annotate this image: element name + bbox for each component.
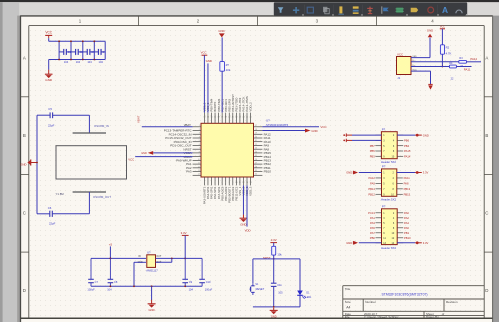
toolbar icon: part (green) (395, 8, 404, 13)
switch S1 (249, 283, 254, 295)
capacitor C10 (199, 258, 211, 286)
usb pin names (412, 56, 417, 72)
svg-text:PA8: PA8 (404, 182, 409, 186)
comment STM32F103C8T6 (266, 123, 289, 127)
svg-text:Number: Number (365, 300, 376, 304)
value 104 (C1) (64, 60, 69, 64)
designator U? (266, 118, 270, 122)
comment Header 5X2 (381, 198, 396, 202)
svg-text:18: 18 (255, 129, 257, 131)
svg-text:VCC: VCC (397, 52, 403, 56)
svg-text:GND: GND (148, 308, 154, 312)
designator P? (Header 8X2) (382, 204, 386, 208)
value 100uF (C7) (87, 288, 95, 292)
ground (below mcu) (240, 215, 248, 227)
svg-text:104: 104 (87, 60, 92, 64)
wire P1 left row2 (343, 139, 381, 142)
svg-text:Header 5X2: Header 5X2 (381, 160, 396, 164)
svg-text:28: 28 (255, 166, 257, 168)
wire cap bank vertical drops (59, 41, 105, 59)
wire to ground (regulator) (151, 286, 153, 300)
wire mcu bottom col12 to gnd (242, 185, 244, 214)
mcu bottom pin labels (rotated) (203, 186, 253, 204)
toolbar icon: text A (442, 5, 448, 15)
capacitor C5 (48, 107, 52, 118)
svg-text:PB15: PB15 (404, 192, 411, 196)
svg-text:5: 5 (199, 140, 200, 142)
mcu pin numbers top row (203, 117, 251, 119)
toolbar icon: wire tool (338, 6, 344, 14)
svg-text:2: 2 (199, 129, 200, 131)
mcu pins right (254, 127, 263, 176)
wire VBAT to mcu (142, 126, 193, 128)
svg-text:45: 45 (246, 117, 248, 119)
wire usb D+ row (411, 66, 449, 68)
wire VSSA to ground arrow (153, 152, 192, 154)
svg-text:OSC8M_OUT: OSC8M_OUT (93, 195, 111, 199)
svg-text:PB6: PB6 (404, 139, 410, 143)
zone letters A-D (23, 56, 489, 294)
wire mcu top col1 (203, 55, 205, 112)
ground arrow (VSSA) (141, 151, 153, 155)
ground (regulator) (148, 300, 156, 312)
wire 3.3V to R5 (273, 243, 275, 247)
svg-text:23: 23 (255, 148, 257, 150)
svg-text:GND: GND (427, 29, 433, 33)
ground arrow (usb bottom) (428, 84, 433, 89)
wire+ground P3 left row7 (346, 241, 381, 245)
svg-text:C9: C9 (189, 280, 193, 284)
designator S1 (255, 283, 259, 286)
wire R5 to rail (273, 255, 275, 260)
mcu pin numbers left column (198, 125, 200, 176)
designator R2 (446, 45, 450, 49)
wire C5 to crystal top (53, 115, 90, 132)
connector P2 (Header 5X2) body (382, 169, 397, 196)
wire VCC stem (48, 38, 50, 41)
svg-text:C:\Users\..\Sheet1.SchDoc: C:\Users\..\Sheet1.SchDoc (364, 315, 399, 319)
svg-text:3: 3 (211, 182, 212, 184)
wire mcu top col2 (207, 63, 209, 112)
svg-text:PA3: PA3 (370, 221, 375, 225)
wire +5 stem (109, 246, 111, 258)
svg-text:U?: U? (266, 118, 270, 122)
svg-text:100uF: 100uF (205, 288, 213, 292)
svg-text:STM32F103C8T6(SMT32T07): STM32F103C8T6(SMT32T07) (382, 293, 428, 297)
svg-text:PB14: PB14 (368, 187, 375, 191)
left panel strip (0, 2, 19, 322)
wire R1 to mcu (221, 71, 223, 112)
svg-text:PB10: PB10 (404, 236, 411, 240)
toolbar icon: bus tool (353, 6, 359, 13)
svg-text:PB12: PB12 (368, 192, 375, 196)
wire+ground P2 left row1 (346, 171, 381, 175)
svg-text:37: 37 (218, 117, 220, 119)
svg-text:C6: C6 (48, 206, 52, 210)
capacitor C8 (108, 258, 118, 286)
designator P? (Header 5X2) (382, 165, 386, 169)
wire+ground P1 right row1 (397, 133, 429, 137)
svg-text:Drawn By:: Drawn By: (426, 315, 440, 319)
svg-text:4: 4 (215, 182, 216, 184)
net label PA11 (464, 68, 471, 72)
wire to ground (cap bank) (48, 60, 50, 70)
svg-text:VCC: VCC (45, 31, 52, 35)
toolbar icon: no-ERC (428, 7, 434, 13)
svg-text:12: 12 (242, 182, 244, 184)
svg-text:C2: C2 (80, 50, 84, 54)
svg-text:43: 43 (239, 117, 241, 119)
svg-text:8: 8 (229, 182, 230, 184)
svg-text:PA0: PA0 (404, 211, 409, 215)
power port VCC (cap bank) (45, 31, 53, 39)
title block (343, 286, 484, 319)
svg-text:12: 12 (198, 166, 200, 168)
wire reset bottom rail (253, 306, 300, 308)
svg-text:10k: 10k (226, 68, 231, 72)
net labels P2 left (368, 176, 375, 196)
connector P3 (Header 8X2) body (382, 209, 398, 245)
mcu pins left (193, 127, 201, 176)
svg-text:PA6: PA6 (404, 226, 409, 230)
svg-text:1: 1 (204, 182, 205, 184)
zone numbers 1-4 (79, 19, 435, 24)
label Y1 8M (56, 192, 65, 196)
wire regulator output rail (156, 258, 203, 260)
net label OSC8M_IN (94, 124, 109, 128)
net labels P2 right (404, 176, 411, 196)
comment LED1 (305, 296, 312, 299)
capacitor C9 (182, 258, 192, 286)
wire P1 left row1 (343, 133, 381, 136)
svg-text:Title: Title (345, 287, 351, 291)
resistor R3 (459, 60, 467, 63)
svg-text:R2: R2 (446, 45, 450, 49)
svg-text:Size: Size (345, 300, 351, 304)
svg-text:PA11: PA11 (464, 68, 471, 72)
svg-text:PC13: PC13 (368, 211, 375, 215)
svg-text:38: 38 (221, 117, 223, 119)
value 22 (R4) (451, 77, 454, 80)
svg-text:J1: J1 (397, 76, 400, 80)
ground (crystal, left edge) (20, 159, 36, 166)
svg-text:VDD_2: VDD_2 (249, 102, 253, 112)
svg-text:VBAT: VBAT (184, 123, 191, 127)
svg-text:GND: GND (240, 223, 246, 227)
svg-text:A: A (23, 56, 26, 61)
svg-text:PB0: PB0 (370, 236, 376, 240)
capacitor C4 (94, 49, 106, 55)
ground (above R1) (218, 29, 224, 37)
svg-text:104: 104 (64, 60, 69, 64)
svg-text:AMS1117: AMS1117 (146, 268, 158, 272)
label VBAT at pin (184, 123, 191, 127)
svg-text:4: 4 (199, 136, 200, 138)
net labels P1 right (404, 139, 411, 159)
svg-text:22pF: 22pF (49, 222, 56, 226)
resistor R4 (449, 65, 456, 68)
connector P1 (Header 5X2) body (381, 132, 397, 159)
svg-text:39: 39 (225, 117, 227, 119)
svg-text:104: 104 (107, 288, 112, 292)
svg-text:PB5: PB5 (370, 149, 376, 153)
svg-text:PB7: PB7 (370, 144, 376, 148)
net label VBAT (rotated, red) (137, 115, 141, 123)
svg-text:B: B (485, 133, 488, 138)
wire right drop (D1) (299, 259, 301, 291)
resistor R2 (440, 45, 444, 54)
svg-text:OUT: OUT (156, 256, 161, 258)
value 4.7K (R2) (446, 52, 452, 56)
toolbar icon: port flag (382, 6, 389, 13)
svg-text:VDD: VDD (245, 228, 251, 232)
svg-text:11: 11 (239, 182, 241, 184)
wire C11 to bottom rail (273, 286, 275, 307)
svg-text:P?: P? (382, 127, 386, 131)
svg-text:PA14: PA14 (404, 154, 411, 158)
pin stubs P3 (376, 213, 404, 243)
resistor R5 (272, 246, 276, 255)
svg-text:3: 3 (199, 133, 200, 135)
svg-text:29: 29 (255, 170, 257, 172)
wire crystal left rail (36, 115, 38, 214)
svg-text:U?: U? (147, 251, 151, 255)
svg-text:105: 105 (278, 290, 283, 294)
mcu pins bottom (204, 177, 250, 185)
svg-text:IN: IN (138, 256, 141, 258)
svg-text:6: 6 (199, 144, 200, 146)
wire mcu right row2 to gnd (262, 130, 305, 132)
svg-text:1: 1 (199, 125, 200, 127)
ground arrow (mcu right) (305, 129, 318, 133)
wire C6 left (37, 213, 50, 215)
wire left drop (S1) (252, 259, 254, 283)
svg-text:A4: A4 (346, 306, 350, 310)
ground (cap bank) (45, 70, 53, 82)
svg-text:C5: C5 (48, 107, 52, 111)
svg-text:File: File (345, 315, 350, 319)
svg-text:11: 11 (198, 163, 200, 165)
svg-text:Header 5X2: Header 5X2 (381, 198, 396, 202)
junction dots cap bank (58, 40, 95, 60)
value 104 (C8) (107, 288, 112, 292)
svg-text:27: 27 (255, 163, 257, 165)
wire regulator bottom rail (91, 285, 202, 287)
svg-text:36: 36 (214, 117, 216, 119)
svg-text:5: 5 (218, 182, 219, 184)
mcu pin numbers right column (255, 125, 257, 176)
svg-text:19: 19 (255, 133, 257, 135)
svg-text:104: 104 (76, 60, 81, 64)
svg-text:24: 24 (255, 151, 257, 153)
svg-text:44: 44 (242, 117, 244, 119)
wire reset top rail (253, 258, 300, 260)
svg-text:PA4: PA4 (404, 221, 409, 225)
floating toolbar (274, 2, 468, 15)
pin numbers P2 (383, 172, 394, 197)
comment Header 5X2 (381, 160, 396, 164)
svg-text:of: of (442, 312, 445, 316)
svg-text:34: 34 (207, 117, 209, 119)
svg-text:D: D (485, 288, 488, 293)
svg-text:40: 40 (228, 117, 230, 119)
wire usb pin1 (411, 38, 430, 58)
toolbar icon: crosshair plus (293, 7, 299, 13)
toolbar icon: filter funnel (278, 7, 284, 13)
power port VCC (R2 top) (440, 26, 445, 29)
svg-text:7: 7 (225, 182, 226, 184)
svg-text:GND: GND (346, 171, 352, 175)
mcu pins top (204, 113, 250, 124)
mcu right pin labels (264, 132, 272, 173)
svg-text:PA12: PA12 (369, 176, 376, 180)
svg-text:GND: GND (218, 29, 224, 33)
wire VDDA (135, 156, 192, 158)
svg-text:14: 14 (249, 182, 251, 184)
svg-text:3.3V: 3.3V (271, 238, 277, 242)
svg-text:13: 13 (198, 170, 200, 172)
wire mid drop (C11) (273, 259, 275, 283)
svg-text:PB10: PB10 (264, 170, 272, 174)
resistor R1 (220, 62, 225, 72)
svg-text:2: 2 (207, 182, 208, 184)
svg-text:41: 41 (232, 117, 234, 119)
svg-text:VCC: VCC (201, 50, 207, 54)
svg-text:35: 35 (210, 117, 212, 119)
power label VCC (VDDA) (128, 157, 134, 161)
svg-text:P?: P? (382, 165, 386, 169)
value 22pF (C5) (48, 124, 55, 128)
wire regulator out2 (156, 258, 172, 262)
capacitor C7 (88, 258, 98, 286)
top window strip (0, 0, 499, 2)
svg-text:100uF: 100uF (87, 288, 95, 292)
svg-text:9: 9 (199, 155, 200, 157)
designator P? (Header 5X2) (382, 127, 386, 131)
power label VCC (usb) (397, 52, 403, 56)
net label PA12 (470, 57, 477, 61)
wire regulator gnd pin (134, 262, 146, 286)
svg-text:PA5: PA5 (370, 226, 375, 230)
svg-text:RESET: RESET (256, 287, 265, 291)
svg-text:GND: GND (141, 152, 147, 155)
svg-text:PB4: PB4 (404, 144, 410, 148)
toolbar icon: net label (red) (367, 7, 373, 14)
svg-text:VCC: VCC (128, 157, 134, 161)
sheet zone ticks (21, 16, 493, 252)
svg-text:OSC8M_IN: OSC8M_IN (94, 124, 109, 128)
net labels P1 left (370, 144, 376, 159)
value 22pF (C6) (49, 222, 56, 226)
regulator U2 body (147, 255, 156, 268)
diode D1 LED (297, 291, 306, 307)
svg-text:PB1: PB1 (404, 231, 410, 235)
capacitor C3 (83, 49, 95, 55)
value 104 (C9) (189, 288, 194, 292)
svg-text:22pF: 22pF (48, 124, 55, 128)
svg-text:C11: C11 (277, 283, 282, 287)
capacitor C6 (48, 206, 53, 217)
value 105 (C11) (278, 290, 283, 294)
svg-text:Header 8X2: Header 8X2 (381, 246, 396, 250)
ground (reset) (270, 308, 278, 319)
svg-text:+5: +5 (109, 242, 113, 246)
svg-text:21: 21 (255, 140, 257, 142)
value 104 (C4) (99, 60, 104, 64)
pin name IN (138, 256, 141, 258)
value 10k (R1) (226, 68, 231, 72)
designator R? (R1) (226, 64, 230, 67)
svg-text:PA15: PA15 (404, 149, 411, 153)
value 10k (R5) (277, 252, 282, 256)
svg-text:GND: GND (311, 129, 317, 133)
svg-text:A: A (442, 5, 448, 15)
mcu pin numbers bottom row (204, 182, 252, 184)
wire VCC to R2 (441, 29, 443, 45)
power port 3.3V (regulator) (181, 231, 189, 235)
svg-text:104: 104 (189, 288, 194, 292)
wire+3.3V P3 right row7 (397, 241, 428, 245)
svg-text:3.3V: 3.3V (181, 231, 187, 235)
svg-text:C: C (485, 211, 488, 216)
designator J1 (397, 76, 400, 80)
svg-text:3.3V: 3.3V (423, 241, 429, 245)
svg-text:VDD_3: VDD_3 (249, 186, 253, 196)
svg-text:20: 20 (255, 136, 257, 138)
net label OSC8M_OUT (93, 195, 111, 199)
svg-text:GND: GND (271, 315, 277, 319)
toolbar icon: rectangle tool (307, 7, 313, 13)
svg-text:PB3: PB3 (370, 154, 376, 158)
wire crystal bottom to C6 (52, 192, 89, 214)
ground (usb top) (427, 29, 433, 38)
wire R3 to PA12 (467, 61, 482, 63)
pin stubs P2 (376, 173, 403, 195)
wire+3.3V P2 right row1 (397, 171, 429, 175)
toolbar icon: arc (456, 10, 462, 13)
designator U2 (147, 251, 151, 255)
wire regulator input rail (91, 258, 146, 260)
comment AMS1117 (146, 268, 158, 272)
svg-text:8: 8 (199, 151, 200, 153)
power label VCC (mcu top col1) (201, 50, 208, 55)
pin name GND (regulator) (138, 262, 143, 264)
svg-text:22: 22 (255, 144, 257, 146)
svg-text:C8: C8 (114, 280, 118, 284)
svg-text:104: 104 (99, 60, 104, 64)
svg-text:C10: C10 (206, 280, 211, 284)
wire usb pin4 down (411, 71, 431, 84)
wire R4 to PA11 (456, 66, 471, 68)
svg-text:42: 42 (235, 117, 237, 119)
value 22 (R3) (460, 65, 463, 68)
svg-text:GND: GND (346, 241, 352, 245)
svg-text:PA3: PA3 (186, 170, 192, 174)
net labels P3 right (404, 211, 411, 240)
svg-text:P?: P? (382, 204, 386, 208)
title block texts (345, 287, 458, 319)
svg-text:17: 17 (255, 125, 257, 127)
svg-text:C7: C7 (95, 280, 99, 284)
power port 3.3V (reset) (270, 238, 277, 242)
designator R4 (449, 62, 453, 65)
svg-text:PB13: PB13 (404, 187, 411, 191)
wire gnd to R1 (221, 37, 223, 61)
svg-text:46: 46 (249, 117, 251, 119)
svg-text:33: 33 (203, 117, 205, 119)
capacitor C2 (71, 49, 83, 55)
mcu top pin labels (rotated) (203, 94, 253, 112)
